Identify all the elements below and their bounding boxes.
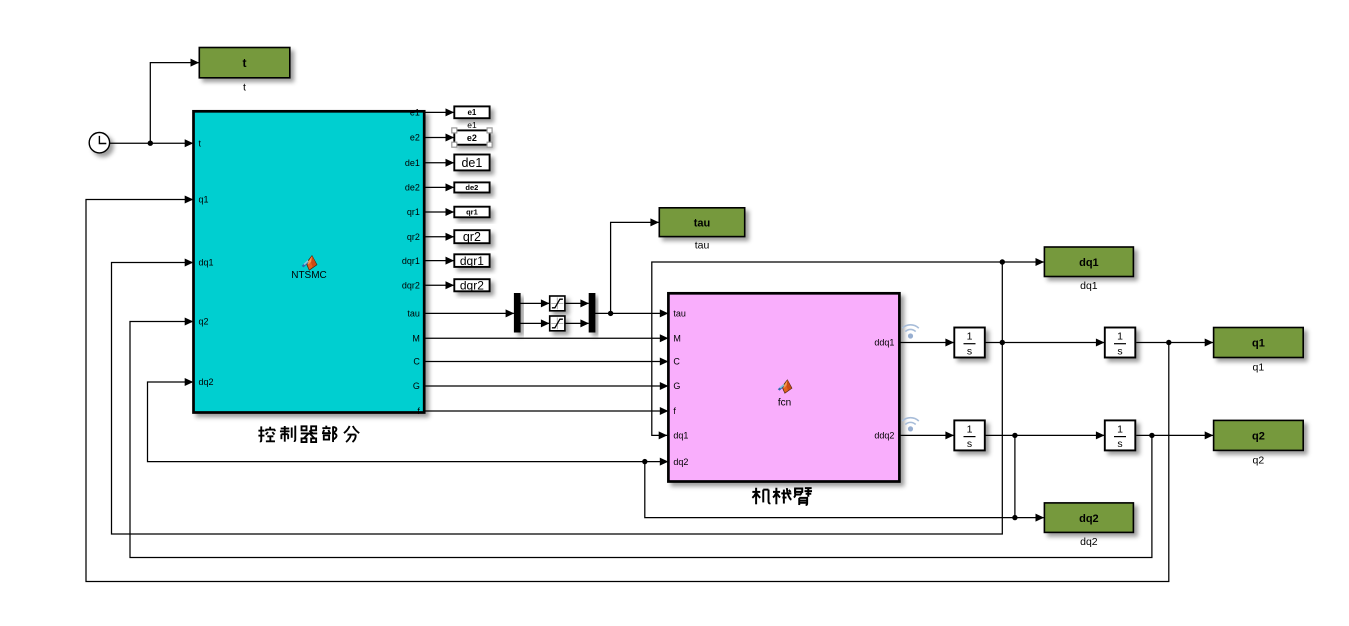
svg-text:ddq1: ddq1: [874, 338, 894, 348]
svg-text:tau: tau: [695, 240, 710, 252]
wire NTSMC qr2 output to qr2 box: [424, 233, 454, 241]
svg-text:M: M: [412, 334, 420, 344]
svg-text:s: s: [1117, 345, 1122, 357]
wire NTSMC de2 output to de2 box: [424, 183, 454, 191]
wire dq2 feedback to NTSMC dq2 input: [148, 378, 645, 462]
wire NTSMC e2 output to e2 box: [424, 134, 454, 142]
svg-text:e2: e2: [467, 133, 477, 143]
svg-text:tau: tau: [407, 309, 420, 319]
wire saturation 1 to mux: [565, 299, 589, 307]
svg-text:q1: q1: [1252, 338, 1265, 350]
saturation block 2: [550, 316, 565, 331]
svg-text:ddq2: ddq2: [874, 431, 894, 441]
selection handles of e2 box: [452, 128, 492, 147]
outport box qr1: [454, 207, 489, 218]
svg-text:dq1: dq1: [1080, 280, 1098, 292]
svg-text:e1: e1: [410, 108, 420, 118]
svg-text:qr2: qr2: [463, 230, 481, 244]
label dq2: [1080, 536, 1098, 548]
svg-text:de1: de1: [461, 156, 482, 170]
wire integrator 1 to integrator 2: [985, 339, 1105, 347]
MATLAB logo icon fcn: [778, 379, 793, 394]
svg-text:t: t: [243, 56, 247, 70]
wire branch to t display block: [150, 59, 199, 144]
svg-text:dq1: dq1: [1079, 257, 1099, 269]
svg-text:s: s: [967, 438, 972, 450]
svg-text:e2: e2: [410, 133, 420, 143]
svg-text:q2: q2: [199, 317, 209, 327]
wire NTSMC G output to robot G input: [424, 382, 668, 390]
svg-text:dq1: dq1: [199, 258, 214, 268]
svg-text:qr1: qr1: [407, 207, 420, 217]
MATLAB function block NTSMC (controller): [194, 111, 425, 412]
label t: [243, 82, 246, 94]
wire NTSMC M output to robot M input: [424, 334, 668, 342]
demux bar: [514, 294, 520, 333]
text fcn: [778, 398, 791, 409]
outport box dqr1: [454, 254, 489, 268]
integrator 4: [1105, 420, 1136, 450]
svg-text:dq2: dq2: [1079, 513, 1099, 525]
wire integrator 4 to q2 display: [1136, 431, 1213, 439]
svg-text:q2: q2: [1252, 431, 1265, 443]
wire mux to robot tau input: [595, 309, 668, 317]
svg-text:t: t: [243, 82, 246, 94]
outport box e2: [454, 130, 489, 144]
display block dq1: [1044, 247, 1133, 277]
label dq1: [1080, 280, 1098, 292]
outport box de1: [454, 155, 489, 171]
wire robot ddq2 to integrator 3: [899, 431, 954, 439]
text NTSMC: [291, 270, 327, 281]
wire NTSMC e1 output to e1 box: [424, 108, 454, 116]
label e1 above selected box: [467, 120, 477, 130]
integrator 2: [1105, 328, 1136, 358]
integrator 1: [954, 328, 985, 358]
display block dq2: [1044, 503, 1133, 533]
wire branch to tau display block: [611, 218, 659, 313]
wire saturation 2 to mux: [565, 319, 589, 327]
svg-text:e1: e1: [467, 120, 477, 130]
svg-text:fcn: fcn: [778, 398, 791, 409]
outport box e1: [454, 106, 489, 118]
svg-text:e1: e1: [467, 108, 476, 117]
svg-text:dq1: dq1: [673, 431, 688, 441]
svg-text:dq2: dq2: [1080, 536, 1098, 548]
outport box dqr2: [454, 279, 489, 293]
svg-text:tau: tau: [673, 309, 686, 319]
wire q2 feedback to NTSMC q2 input: [130, 318, 1152, 558]
wire q1 feedback to NTSMC q1 input: [86, 196, 1169, 582]
svg-text:q1: q1: [1253, 362, 1265, 374]
MATLAB function block fcn (robot arm): [668, 293, 899, 481]
wire demux to saturation 1: [520, 299, 549, 307]
svg-text:dqr2: dqr2: [460, 279, 484, 293]
svg-text:tau: tau: [694, 217, 711, 229]
mux bar: [589, 294, 595, 333]
wire dq1 over top to robot dq1 input: [652, 262, 1003, 439]
wire clock to NTSMC t input: [110, 139, 193, 147]
svg-text:de2: de2: [405, 183, 420, 193]
wire integrator 3 to integrator 4: [985, 431, 1105, 439]
label 控制器部分 (controller part): [258, 426, 359, 442]
svg-text:s: s: [1117, 438, 1122, 450]
wire dq1 tap to dq1 display: [1000, 258, 1045, 343]
MATLAB logo icon NTSMC: [302, 255, 318, 271]
svg-text:q1: q1: [199, 195, 209, 205]
svg-text:dqr1: dqr1: [402, 256, 420, 266]
wire demux to saturation 2: [520, 319, 549, 327]
svg-text:NTSMC: NTSMC: [291, 270, 327, 281]
display block q2: [1214, 420, 1304, 450]
robot input port labels: [673, 309, 688, 467]
svg-text:C: C: [673, 357, 680, 367]
svg-text:de2: de2: [465, 183, 478, 192]
signal logging badge ddq2: [902, 418, 919, 432]
wire NTSMC tau output to demux: [424, 309, 514, 317]
robot output port labels: [874, 338, 894, 441]
outport box qr2: [454, 230, 489, 244]
svg-text:1: 1: [967, 424, 973, 436]
svg-text:1: 1: [967, 331, 973, 343]
wire NTSMC qr1 output to qr1 box: [424, 208, 454, 216]
wire NTSMC dqr1 output to dqr1 box: [424, 257, 454, 265]
svg-text:dqr1: dqr1: [460, 254, 484, 268]
display block q1: [1214, 328, 1304, 358]
svg-text:s: s: [967, 345, 972, 357]
signal logging badge ddq1: [902, 325, 919, 339]
saturation block 1: [550, 296, 565, 311]
svg-text:dq2: dq2: [199, 377, 214, 387]
clock source block: [89, 133, 109, 153]
svg-text:qr2: qr2: [407, 232, 420, 242]
wire dq2 feedback to robot dq2 input: [642, 458, 1015, 518]
label 机械臂 (robot arm): [752, 488, 812, 505]
label q1: [1253, 362, 1265, 374]
label q2: [1253, 455, 1265, 467]
NTSMC output port labels: [402, 108, 421, 417]
wire NTSMC dqr2 output to dqr2 box: [424, 281, 454, 289]
wire dq2 tap to dq2 display: [1012, 435, 1044, 521]
label tau: [695, 240, 710, 252]
svg-text:de1: de1: [405, 158, 420, 168]
svg-text:1: 1: [1117, 331, 1123, 343]
svg-text:dqr2: dqr2: [402, 281, 420, 291]
outport box de2: [454, 182, 489, 192]
wire NTSMC de1 output to de1 box: [424, 159, 454, 167]
svg-text:C: C: [413, 357, 420, 367]
integrator 3: [954, 420, 985, 450]
wire integrator 2 to q1 display: [1136, 339, 1213, 347]
svg-text:G: G: [673, 381, 680, 391]
display block tau: [659, 208, 744, 237]
svg-text:M: M: [673, 334, 681, 344]
svg-text:q2: q2: [1253, 455, 1265, 467]
wire NTSMC C output to robot C input: [424, 358, 668, 366]
display block t: [199, 48, 289, 78]
svg-text:1: 1: [1117, 424, 1123, 436]
wire NTSMC f output to robot f input: [424, 407, 668, 415]
wire robot ddq1 to integrator 1: [899, 339, 954, 347]
svg-text:qr1: qr1: [466, 208, 478, 217]
svg-text:G: G: [413, 381, 420, 391]
svg-text:dq2: dq2: [673, 457, 688, 467]
NTSMC input port labels: [199, 138, 214, 387]
wire dq1 feedback to NTSMC dq1 input: [112, 259, 1003, 535]
